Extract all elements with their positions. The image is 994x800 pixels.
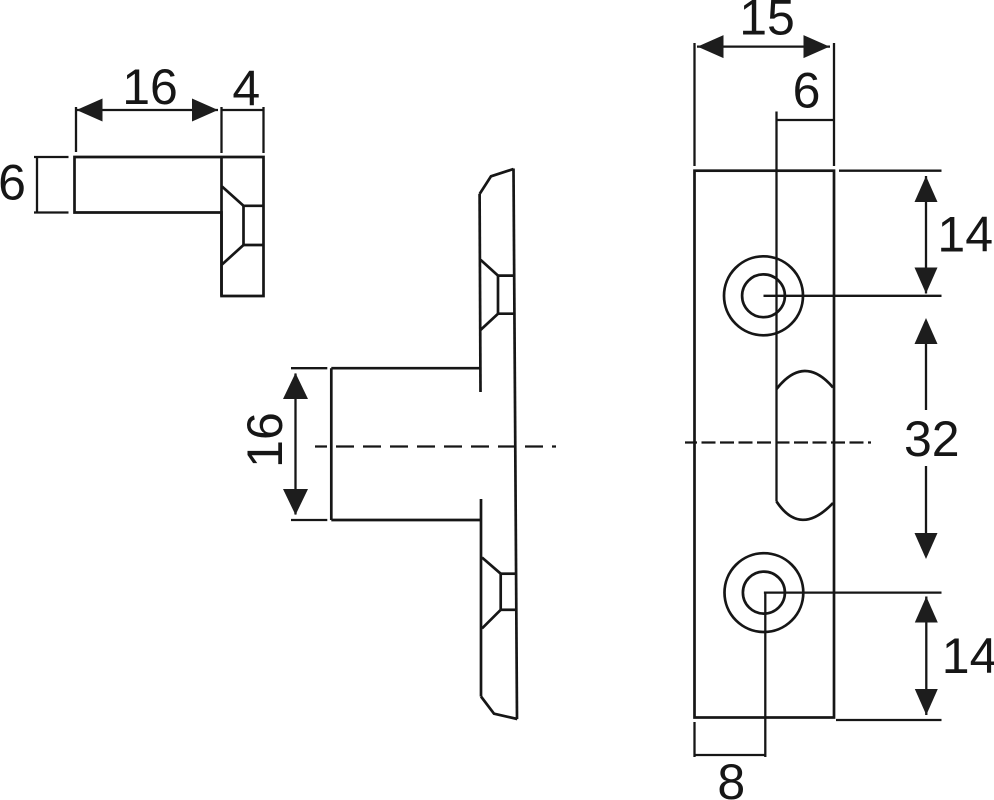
right centerline dashed — [685, 441, 871, 443]
dimension 14 top: dimension line — [925, 176, 927, 294]
middle bottom countersink upper diagonal — [482, 558, 501, 574]
svg-text:8: 8 — [717, 754, 745, 800]
dimension 8: extension line left — [693, 722, 695, 757]
dimension 14 bottom: dimension line — [925, 597, 927, 716]
middle top countersink bore bottom edge — [498, 312, 514, 315]
boss left edge — [330, 368, 333, 520]
middle centerline dashed — [315, 445, 556, 447]
middle bottom countersink bore left edge — [499, 574, 502, 610]
middle top countersink upper diagonal — [481, 260, 499, 276]
dimension 15: extension line right — [833, 43, 835, 166]
dimension 8: dimension line — [695, 754, 766, 756]
top hole center line — [764, 295, 942, 297]
dimension 32: arrowhead down — [915, 533, 938, 559]
dimension 16 middle: arrowhead up — [283, 373, 308, 399]
dimension 14 top: arrowhead down — [915, 268, 938, 294]
dimension 4: dimension line — [222, 109, 264, 111]
middle top countersink lower diagonal — [481, 314, 499, 330]
bottom hole center line — [764, 591, 942, 593]
dimension 15: dimension line — [697, 45, 830, 47]
left view outline — [75, 157, 264, 296]
left view inner edge between arm and body — [220, 157, 223, 296]
left view countersink cone lower diagonal — [222, 245, 244, 265]
dimension 16 left: dimension line — [76, 109, 218, 111]
svg-text:14: 14 — [937, 206, 993, 262]
middle top countersink bore top edge — [498, 274, 514, 277]
dimension 16 middle: extension line bottom — [291, 519, 327, 521]
left view countersink bore top edge — [244, 204, 264, 207]
svg-text:6: 6 — [793, 63, 821, 119]
slot bottom arc — [777, 502, 834, 520]
dimension 16 left: extension line left — [75, 107, 77, 152]
dimension 14 bottom: arrowhead up — [915, 597, 938, 623]
dimension 14 top: arrowhead up — [915, 176, 938, 202]
svg-text:16: 16 — [237, 412, 293, 468]
dimension 16 middle: dimension line — [294, 374, 296, 515]
middle bottom countersink bore top edge — [501, 572, 516, 575]
top hole inner circle — [742, 274, 785, 317]
middle plate right edge — [514, 169, 518, 720]
dimension 15: extension line left — [693, 43, 695, 166]
middle bottom countersink lower diagonal — [482, 610, 501, 629]
dimension 14 bottom: arrowhead down — [915, 689, 938, 715]
dimension 6 left: extension line top — [34, 156, 69, 158]
dimension 6 left: dimension line — [36, 157, 38, 213]
svg-text:6: 6 — [0, 155, 26, 211]
dimension 16 left: arrowhead left — [77, 99, 103, 122]
left view countersink bore bottom edge — [244, 244, 264, 247]
dimension 16 left: arrowhead right — [192, 99, 218, 122]
dimension 16 left: extension line right — [220, 107, 222, 153]
dimension 6 left: extension line bottom — [34, 211, 69, 213]
bottom hole inner circle — [743, 572, 785, 614]
left view countersink bore left edge — [242, 206, 245, 245]
dimension 14 top: extension line — [839, 170, 942, 172]
boss top edge — [331, 367, 480, 370]
bottom hole vertical extension line — [764, 593, 766, 757]
right plate outline — [695, 171, 835, 718]
svg-text:16: 16 — [122, 59, 178, 115]
middle bottom countersink bore bottom edge — [501, 608, 517, 611]
boss bottom edge — [331, 519, 480, 522]
slot left edge and width extension line — [775, 112, 777, 502]
middle plate left edge lower — [480, 499, 483, 697]
dimension 32: arrowhead up — [915, 318, 938, 344]
svg-text:15: 15 — [739, 0, 795, 46]
dimension 15: arrowhead left — [698, 35, 724, 58]
bottom hole outer circle — [725, 553, 804, 632]
middle plate top edge — [480, 169, 514, 194]
dimension 16 middle: arrowhead down — [283, 489, 308, 515]
svg-text:14: 14 — [942, 628, 994, 684]
middle plate bottom chamfer — [481, 697, 517, 720]
slot top arc — [777, 371, 834, 389]
middle plate left edge upper — [478, 194, 482, 392]
dimension 6 right: dimension line — [777, 119, 834, 121]
dimension 16 middle: extension line top — [291, 367, 327, 369]
top hole outer circle — [724, 256, 803, 335]
dimension 14 bottom: extension line — [836, 719, 942, 721]
left view countersink cone upper diagonal — [222, 187, 244, 206]
dimension 15: arrowhead right — [804, 35, 830, 58]
svg-text:32: 32 — [904, 411, 960, 467]
dimension 32: dimension line upper segment — [925, 344, 927, 410]
svg-text:4: 4 — [232, 61, 260, 117]
dimension 32: dimension line lower segment — [925, 466, 927, 535]
middle top countersink bore left edge — [497, 276, 500, 314]
dimension 4: extension line right — [262, 107, 264, 153]
